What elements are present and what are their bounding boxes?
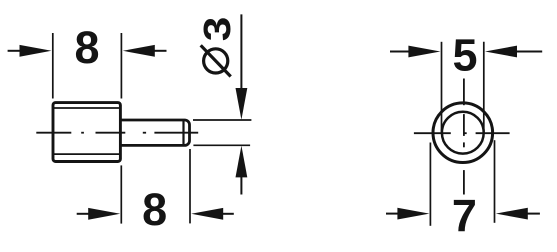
svg-text:7: 7 — [452, 190, 477, 241]
body inner top edge line — [54, 107, 120, 109]
centerline (horizontal axis, dash-dot) — [36, 132, 198, 134]
body outline (sleeve) — [53, 103, 120, 162]
dimension 5 (bore): extension lines — [442, 42, 484, 133]
dimension 5: right arrow and tail — [485, 46, 517, 58]
dimension 8 (top): right arrow and tail — [123, 45, 155, 57]
dimension Ø3 (pin diameter): extension lines — [193, 120, 251, 145]
svg-text:5: 5 — [452, 30, 477, 81]
dimension 7: left arrow and tail — [386, 213, 399, 215]
dimension Ø3: lower dimension line with up arrow — [236, 146, 248, 178]
dimension 8 (bottom): right arrow and tail — [191, 208, 223, 220]
svg-text:3: 3 — [197, 17, 239, 42]
dimension Ø3: upper dimension line with down arrow — [240, 14, 242, 89]
inner circle (5 mm bore) — [442, 112, 484, 154]
dimension 8 (top, body length): extension lines — [53, 33, 122, 99]
dimension 7: right arrow and tail — [496, 208, 528, 220]
body inner bottom edge line — [54, 153, 120, 155]
pin cap line — [182, 121, 184, 146]
dimension 8 (bottom, pin length): extension lines — [121, 149, 190, 224]
dimension 8 (bottom): left arrow and tail — [77, 213, 90, 215]
dimension Ø3: value label "Ø" diameter symbol (drawn) — [204, 49, 228, 73]
dimension 7 (outer diameter): extension lines — [430, 140, 494, 226]
dimension 5: left arrow and tail — [390, 51, 409, 53]
outer circle (7 mm sleeve) — [433, 103, 493, 163]
svg-text:8: 8 — [142, 184, 167, 235]
vertical centerline — [463, 79, 465, 195]
svg-text:8: 8 — [74, 22, 99, 73]
dimension 8 (top): left arrow and tail — [8, 50, 21, 52]
horizontal centerline — [414, 132, 510, 134]
pin outline — [120, 120, 189, 145]
